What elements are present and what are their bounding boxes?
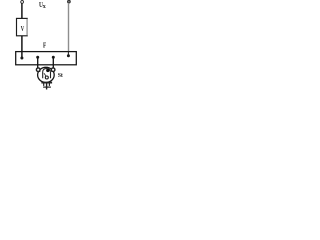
slide-wire resistor F [16,52,77,65]
stand base bar [41,82,52,84]
stand crossbar [43,86,51,88]
stand right foot [48,82,50,86]
wire stub terminal left to body [38,70,40,72]
magnet dome inside galvanometer [43,69,51,79]
svg-text:F: F [43,41,46,50]
junction dot right tap [52,56,55,59]
svg-text:x: x [43,4,46,10]
wire stub terminal right to body [51,70,53,72]
junction dot left wire [20,57,23,60]
wire voltmeter to slide wire [21,36,23,58]
wire stub inside slide wire (right) [67,52,69,56]
galvanometer terminal right [51,68,55,72]
pivot ring [45,76,48,79]
junction dot right wire [67,54,70,57]
galvanometer terminal left [36,68,40,72]
svg-text:St: St [58,73,63,79]
terminal right [68,0,71,3]
wire left tap to galvanometer [37,57,39,68]
svg-text:V: V [21,25,25,33]
coil dot [46,69,49,72]
wire right tap to galvanometer [52,57,54,68]
needle [44,73,46,76]
wire right terminal to slide wire [68,3,70,52]
wire left terminal to voltmeter [21,3,23,18]
galvanometer St body [38,67,55,82]
voltmeter V box [17,18,28,35]
terminal left [21,1,24,4]
stand stem [46,83,48,89]
stand left foot [43,82,45,86]
junction dot left tap [36,56,39,59]
